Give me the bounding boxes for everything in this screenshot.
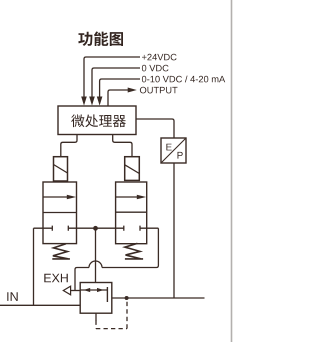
wire supply riser to valve V1 <box>33 228 35 305</box>
valve V1 flow arrow <box>43 196 68 198</box>
wire regulator output line <box>112 297 205 299</box>
arrowhead 0-10 VDC into microprocessor <box>97 97 103 106</box>
regulator internal arrow left (exhaust) <box>84 288 91 292</box>
EXH label <box>44 274 68 283</box>
wire feedback stub solid <box>95 313 97 321</box>
wire feedback dashed pilot line <box>95 321 97 329</box>
valve V2 flow arrow <box>116 196 138 198</box>
valve V1 body (supply 2/2 valve) <box>43 182 77 244</box>
valve V2 blocked port line right <box>140 226 158 231</box>
valve V2 cell divider <box>116 211 147 213</box>
wire exhaust line from V2 to EXH with hop <box>75 228 158 290</box>
wire OUTPUT from microprocessor <box>108 90 128 106</box>
junction node output feedback <box>125 296 129 300</box>
spring of valve V1 <box>52 244 70 259</box>
wire 0 VDC input <box>92 68 140 97</box>
wire +24VDC input <box>84 57 140 97</box>
regulator internal flow line <box>80 289 107 291</box>
solenoid coil of valve V2 (right) <box>125 157 140 181</box>
E/P letter E <box>166 144 171 151</box>
wire microprocessor to right solenoid coil <box>113 135 132 157</box>
arrowhead 0 VDC into microprocessor <box>89 97 95 106</box>
wire E/P sensing line down <box>173 163 175 298</box>
coil diagonal V1 <box>54 165 68 174</box>
regulator internal seat bar <box>106 287 108 302</box>
title 功能图 <box>78 32 123 47</box>
solenoid coil of valve V1 (left) <box>54 157 68 181</box>
IN label <box>7 292 17 301</box>
label +24VDC <box>142 54 177 61</box>
E/P letter P <box>178 152 183 159</box>
wire microprocessor to E/P transducer <box>136 119 174 138</box>
wire EXH triangle to regulator <box>71 290 81 292</box>
microprocessor label 微处理器 <box>71 114 126 127</box>
wire pilot line down to regulator valve <box>95 230 97 283</box>
spring of valve V2 <box>125 243 143 259</box>
wire IN supply line <box>0 304 80 306</box>
arrowhead +24VDC into microprocessor <box>81 97 87 106</box>
microprocessor box U1 <box>58 106 136 135</box>
E/P diagonal <box>162 139 186 163</box>
label 0 VDC <box>142 65 169 72</box>
coil diagonal V2 <box>125 165 140 174</box>
E/P pressure transducer box <box>161 138 186 163</box>
valve V1 blocked port line left <box>34 226 53 231</box>
arrowhead OUTPUT pointing right <box>128 88 137 93</box>
valve V1/V2 blocked port line middle <box>68 226 124 231</box>
valve V2 body (exhaust 2/2 valve) <box>116 182 147 244</box>
wire 0-10 VDC / 4-20 mA input <box>100 79 140 97</box>
label OUTPUT <box>140 87 178 94</box>
regulator internal arrow right (supply) <box>97 288 104 292</box>
wire microprocessor to left solenoid coil <box>61 135 77 157</box>
junction node pilot <box>93 226 98 231</box>
EXH exhaust triangle port <box>63 286 70 295</box>
label 0-10 VDC / 4-20 mA <box>142 76 225 83</box>
valve V1 cell divider <box>43 212 77 214</box>
page border rail (gray) <box>231 0 233 342</box>
regulator main valve body <box>80 283 112 314</box>
